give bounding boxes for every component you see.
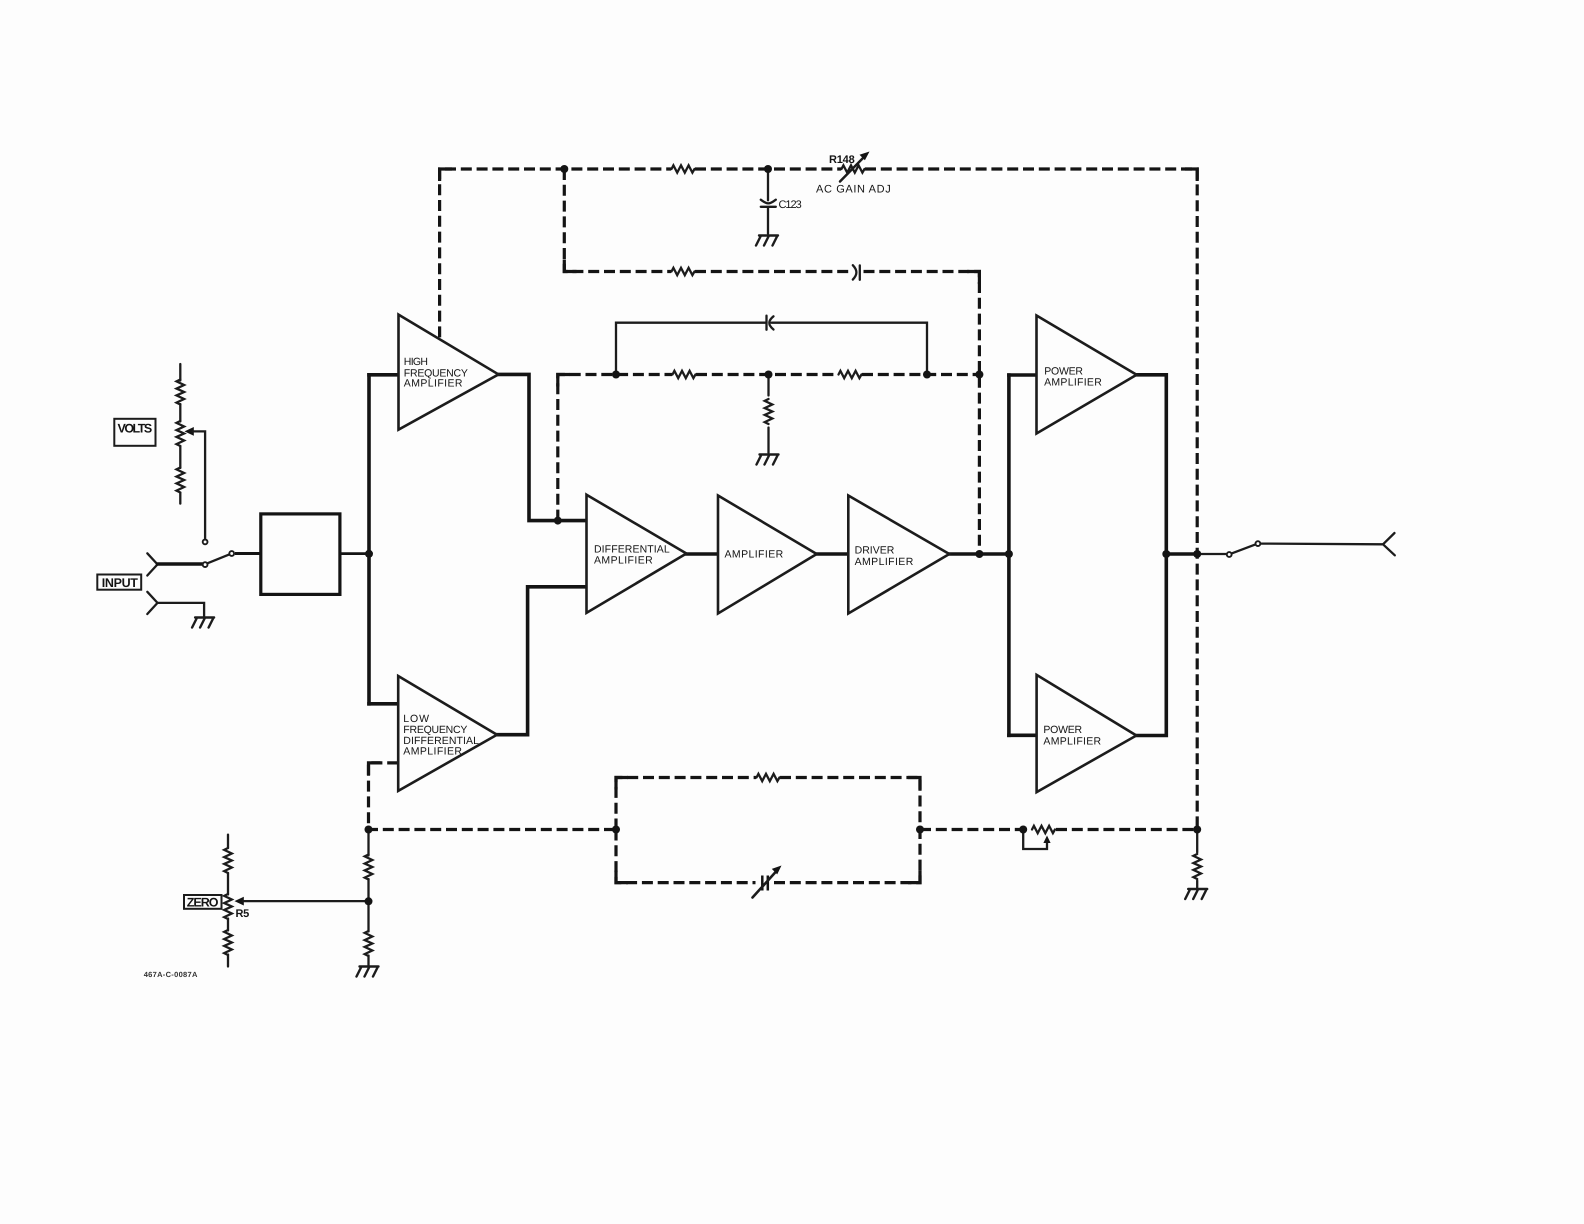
svg-text:ZERO: ZERO [187, 896, 219, 910]
svg-text:HIGH: HIGH [404, 356, 429, 368]
svg-text:VOLTS: VOLTS [118, 421, 153, 435]
svg-text:AMPLIFIER: AMPLIFIER [403, 746, 462, 758]
svg-text:AMPLIFIER: AMPLIFIER [1044, 376, 1102, 388]
svg-text:AMPLIFIER: AMPLIFIER [1043, 736, 1101, 748]
svg-text:INPUT: INPUT [102, 576, 138, 590]
svg-text:AC GAIN ADJ: AC GAIN ADJ [816, 183, 891, 195]
svg-text:R5: R5 [236, 908, 250, 920]
svg-text:AMPLIFIER: AMPLIFIER [725, 548, 784, 560]
svg-text:POWER: POWER [1043, 724, 1082, 736]
svg-text:AMPLIFIER: AMPLIFIER [594, 555, 653, 567]
svg-text:DRIVER: DRIVER [855, 545, 895, 557]
svg-text:R148: R148 [829, 154, 855, 166]
svg-text:AMPLIFIER: AMPLIFIER [404, 378, 463, 390]
svg-text:467A-C-0087A: 467A-C-0087A [144, 970, 198, 979]
svg-text:FREQUENCY: FREQUENCY [403, 724, 467, 736]
svg-text:AMPLIFIER: AMPLIFIER [855, 556, 914, 568]
svg-text:C123: C123 [779, 199, 803, 211]
